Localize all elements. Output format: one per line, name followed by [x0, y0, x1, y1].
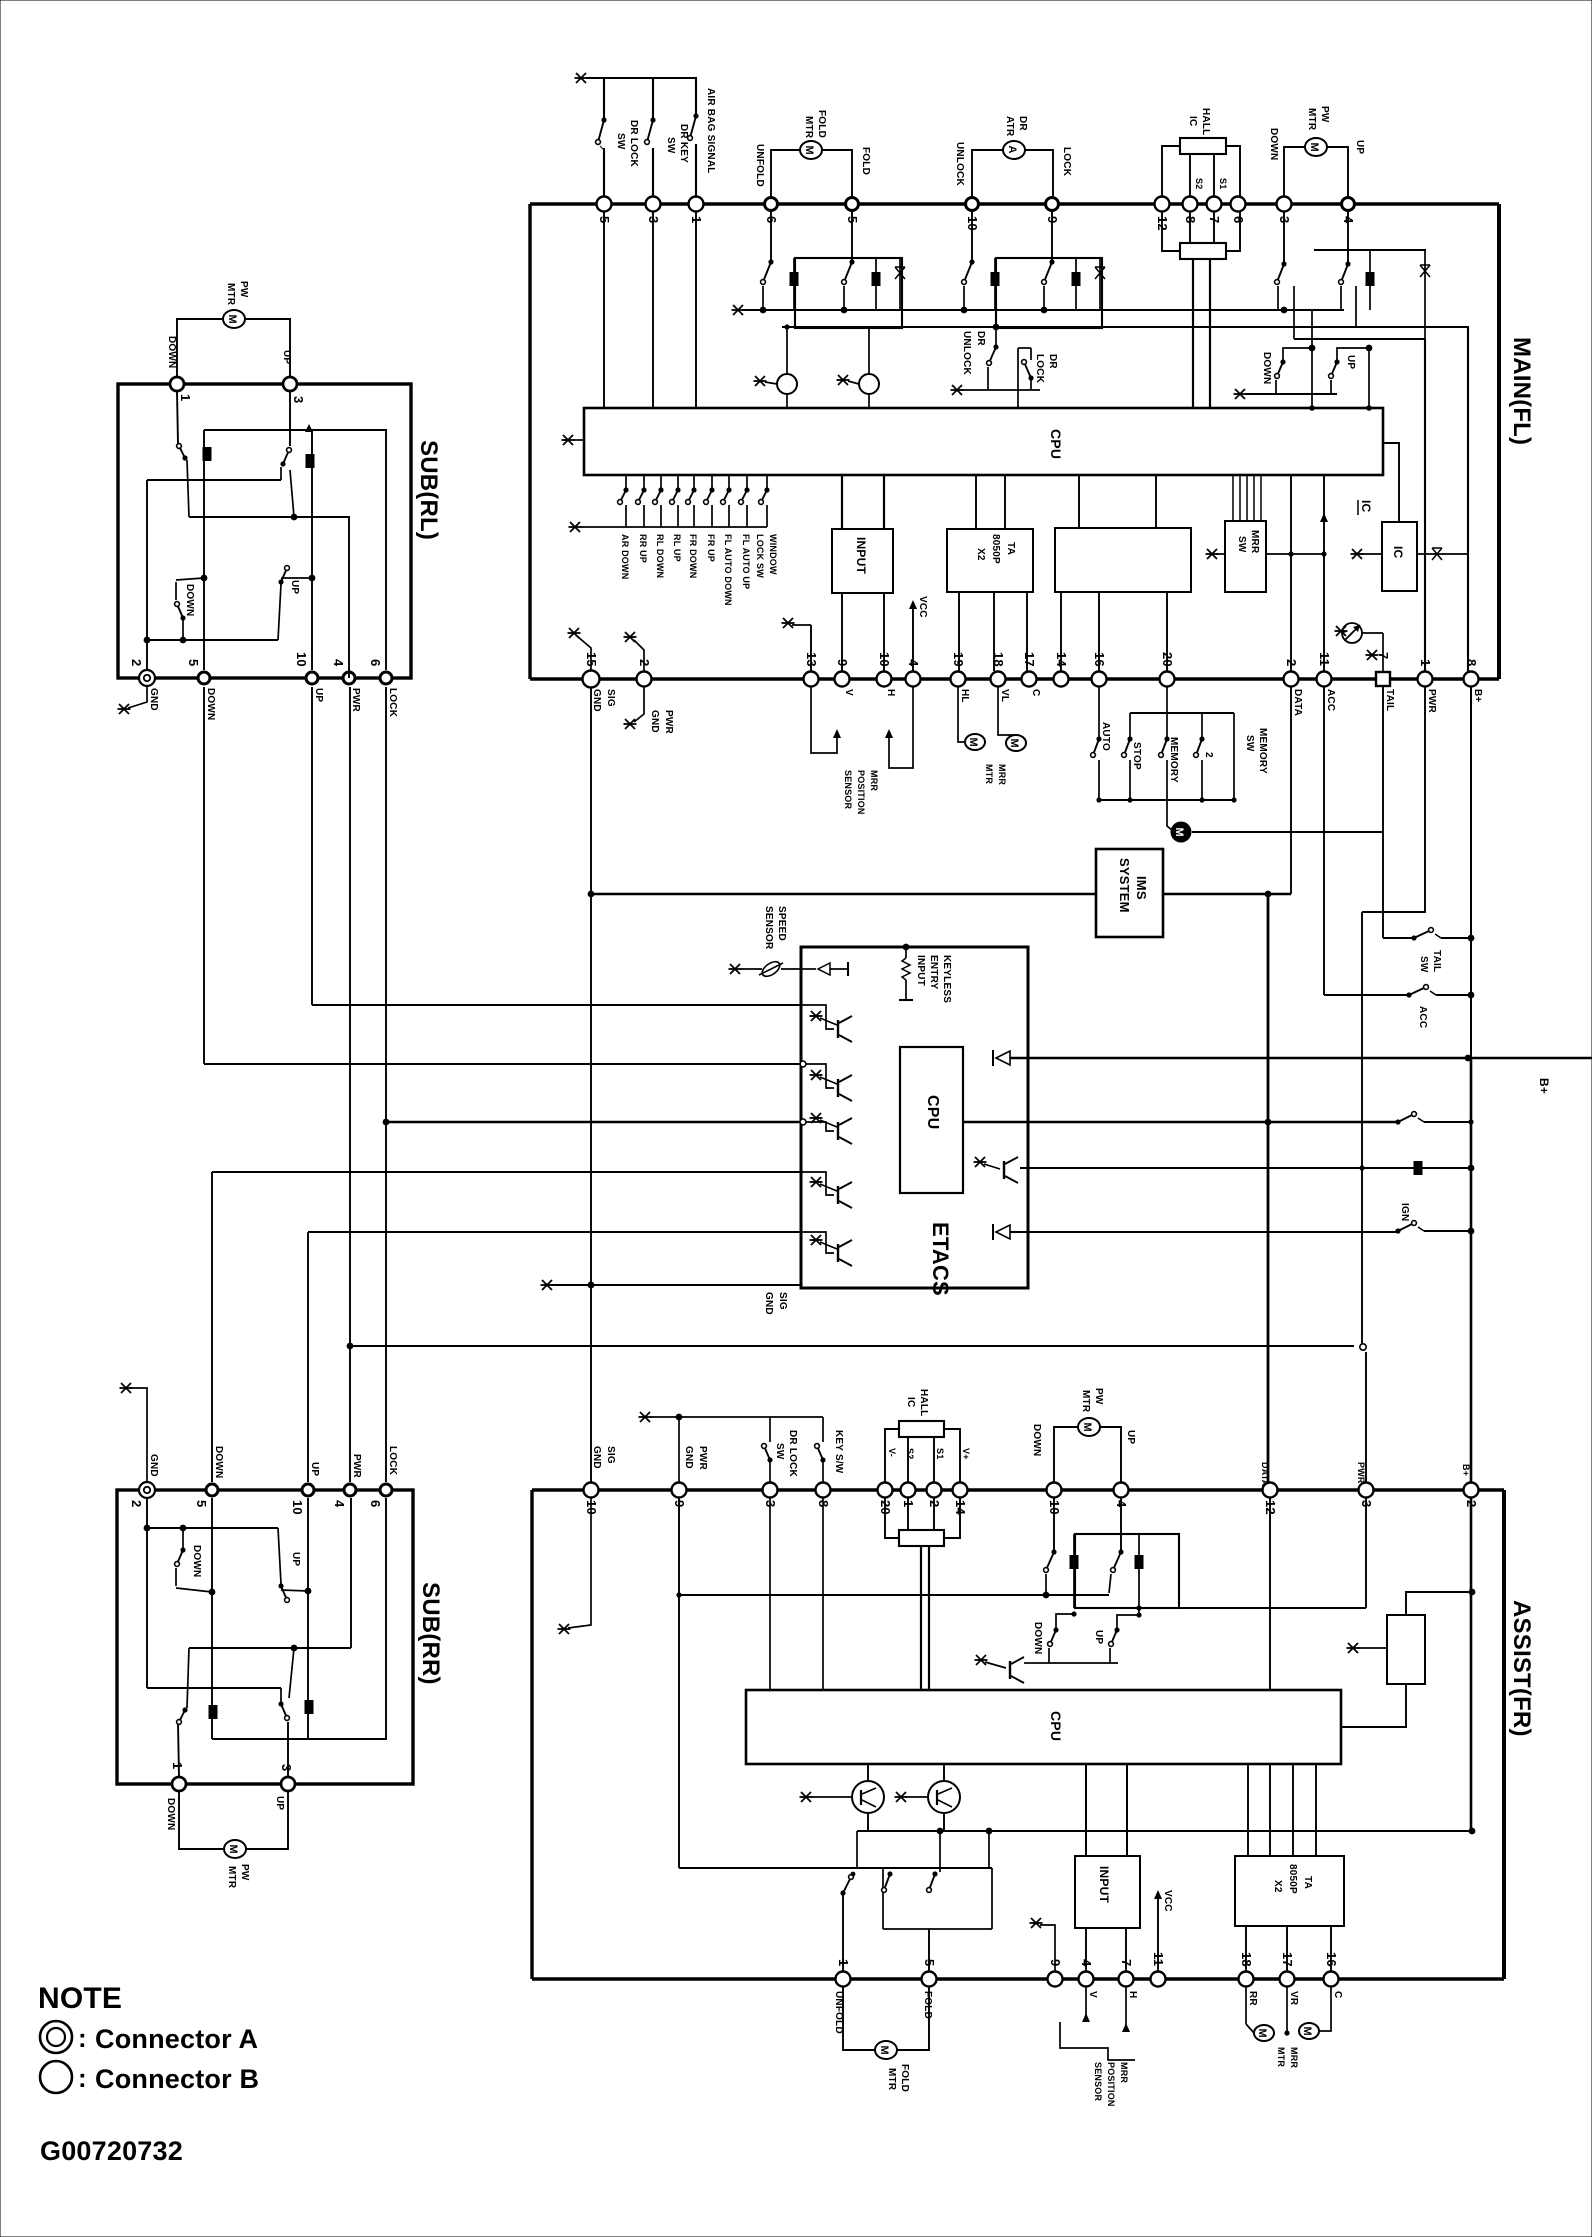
svg-text:MTR: MTR — [1080, 1390, 1091, 1413]
svg-text:DATA: DATA — [1292, 689, 1303, 716]
svg-text:SW: SW — [1236, 536, 1247, 553]
svg-text:GND: GND — [649, 710, 660, 733]
svg-text:M: M — [967, 738, 979, 747]
svg-text:14: 14 — [1054, 652, 1069, 667]
svg-text:13: 13 — [804, 652, 819, 667]
svg-text:UP: UP — [1354, 140, 1365, 154]
svg-text:6: 6 — [1231, 216, 1246, 223]
svg-text:8050P: 8050P — [1287, 1864, 1298, 1894]
svg-text:POSITION: POSITION — [856, 770, 866, 815]
svg-text:17: 17 — [1022, 652, 1037, 667]
svg-text:NOTE: NOTE — [38, 1982, 122, 2015]
svg-text:M: M — [1301, 2027, 1313, 2036]
svg-text:M: M — [1308, 143, 1320, 152]
svg-text:10: 10 — [294, 652, 309, 667]
svg-text:TAIL: TAIL — [1384, 689, 1395, 711]
svg-text:DR: DR — [1017, 116, 1028, 131]
svg-text:SENSOR: SENSOR — [1093, 2062, 1103, 2102]
svg-text:3: 3 — [291, 396, 306, 403]
svg-text:1: 1 — [836, 1959, 851, 1966]
svg-text:FL AUTO DOWN: FL AUTO DOWN — [723, 534, 733, 606]
svg-text:GND: GND — [683, 1446, 694, 1469]
svg-text:UP: UP — [1093, 1630, 1104, 1644]
svg-text:4: 4 — [906, 659, 921, 667]
svg-text:PW: PW — [239, 1864, 250, 1881]
svg-text:C: C — [1332, 1991, 1343, 1998]
svg-text:PWR: PWR — [350, 688, 361, 713]
svg-text:MTR: MTR — [984, 764, 994, 784]
svg-text:GND: GND — [148, 1454, 159, 1477]
svg-text:AIR BAG SIGNAL: AIR BAG SIGNAL — [705, 88, 716, 174]
svg-text:IMS: IMS — [1134, 876, 1149, 900]
svg-text:FOLD: FOLD — [860, 147, 871, 175]
svg-text:DOWN: DOWN — [166, 336, 177, 368]
svg-text:DR KEY: DR KEY — [678, 124, 689, 163]
svg-text:UP: UP — [281, 350, 292, 364]
svg-text:PWR: PWR — [1426, 689, 1437, 714]
svg-text:SUB(RR): SUB(RR) — [417, 1582, 444, 1685]
svg-text:PW: PW — [1093, 1388, 1104, 1405]
svg-text:SPEED: SPEED — [776, 906, 787, 941]
svg-text:2: 2 — [1203, 752, 1214, 758]
svg-text:3: 3 — [646, 216, 661, 223]
svg-text:AR DOWN: AR DOWN — [620, 534, 630, 579]
svg-text:DOWN: DOWN — [213, 1446, 224, 1478]
svg-text:H: H — [1127, 1991, 1138, 1998]
svg-text:UP: UP — [309, 1462, 320, 1476]
svg-text:6: 6 — [368, 659, 383, 666]
svg-text:SW: SW — [665, 137, 676, 154]
svg-text:MRR: MRR — [997, 764, 1007, 785]
svg-text:GND: GND — [763, 1292, 774, 1315]
svg-text:M: M — [226, 315, 238, 324]
svg-text:M: M — [227, 1845, 239, 1854]
svg-text:FOLD: FOLD — [816, 110, 827, 138]
svg-text:DATA: DATA — [1260, 1462, 1270, 1487]
svg-text:SIG: SIG — [777, 1292, 788, 1310]
svg-text:GND: GND — [591, 1446, 602, 1469]
svg-text:DR LOCK: DR LOCK — [787, 1430, 798, 1478]
svg-text:M: M — [1256, 2029, 1268, 2038]
svg-text:DR LOCK: DR LOCK — [628, 120, 639, 168]
svg-text:RL UP: RL UP — [672, 534, 682, 562]
svg-text:UNLOCK: UNLOCK — [961, 331, 972, 376]
svg-text:MTR: MTR — [225, 283, 236, 306]
svg-text:UP: UP — [289, 580, 300, 594]
svg-text:DOWN: DOWN — [184, 584, 195, 616]
svg-text:DR: DR — [1047, 354, 1058, 369]
svg-text:GND: GND — [591, 689, 602, 712]
svg-text:18: 18 — [991, 652, 1006, 667]
svg-text:2: 2 — [129, 659, 144, 666]
svg-text:5: 5 — [597, 216, 612, 223]
svg-text:MRR: MRR — [869, 770, 879, 791]
svg-text:ACC: ACC — [1417, 1006, 1428, 1028]
svg-text:UNFOLD: UNFOLD — [754, 144, 765, 187]
svg-text:HL: HL — [959, 689, 970, 703]
svg-text:UP: UP — [1125, 1430, 1136, 1444]
svg-text:FR UP: FR UP — [706, 534, 716, 562]
svg-text:B+: B+ — [1537, 1078, 1551, 1094]
svg-text:UP: UP — [274, 1796, 285, 1810]
svg-text:5: 5 — [922, 1959, 937, 1966]
svg-text:FOLD: FOLD — [899, 2064, 910, 2092]
svg-text:AUTO: AUTO — [1100, 722, 1111, 751]
svg-text:MTR: MTR — [803, 116, 814, 139]
svg-text:SYSTEM: SYSTEM — [1117, 858, 1132, 913]
svg-text:4: 4 — [331, 659, 346, 667]
svg-text:X2: X2 — [975, 548, 986, 561]
svg-text:IC: IC — [1187, 116, 1198, 126]
svg-text:CPU: CPU — [1048, 1711, 1064, 1741]
svg-text:LOCK SW: LOCK SW — [755, 534, 765, 578]
svg-text:10: 10 — [877, 652, 892, 667]
svg-text:DOWN: DOWN — [205, 688, 216, 720]
svg-text:FL AUTO UP: FL AUTO UP — [741, 534, 751, 589]
svg-text:C: C — [1030, 689, 1041, 696]
svg-text:6: 6 — [368, 1500, 383, 1507]
svg-text:RR UP: RR UP — [638, 534, 648, 563]
svg-text:ATR: ATR — [1004, 116, 1015, 137]
svg-text:MTR: MTR — [1276, 2047, 1286, 2067]
svg-text::: : — [78, 2063, 87, 2093]
svg-text:PWR: PWR — [351, 1454, 362, 1479]
svg-text:G00720732: G00720732 — [40, 2136, 183, 2166]
svg-text:S2: S2 — [905, 1448, 915, 1459]
svg-text:V: V — [1087, 1991, 1098, 1998]
svg-text:LOCK: LOCK — [1061, 147, 1072, 177]
svg-text:VR: VR — [1288, 1991, 1299, 2006]
svg-text:UP: UP — [290, 1552, 301, 1566]
svg-text:B+: B+ — [1472, 689, 1483, 702]
svg-text:V+: V+ — [961, 1448, 971, 1460]
svg-text:PW: PW — [238, 281, 249, 298]
svg-text:M: M — [1081, 1423, 1093, 1432]
svg-text:S1: S1 — [1218, 178, 1228, 189]
svg-text:DOWN: DOWN — [165, 1798, 176, 1830]
svg-text:DR: DR — [975, 331, 986, 346]
svg-text:ENTRY: ENTRY — [928, 955, 939, 990]
svg-text:INPUT: INPUT — [854, 537, 868, 574]
svg-text:DOWN: DOWN — [1268, 128, 1279, 160]
svg-text:2: 2 — [129, 1500, 144, 1507]
svg-text:LOCK: LOCK — [1034, 354, 1045, 384]
svg-text:SENSOR: SENSOR — [763, 906, 774, 950]
svg-text:UNLOCK: UNLOCK — [954, 142, 965, 187]
svg-text:16: 16 — [1092, 652, 1107, 667]
svg-text:MRR: MRR — [1289, 2047, 1299, 2068]
svg-text:SW: SW — [774, 1443, 785, 1460]
svg-text:POSITION: POSITION — [1106, 2062, 1116, 2107]
svg-text:SW: SW — [1244, 735, 1255, 752]
svg-text:LOCK: LOCK — [387, 1446, 398, 1476]
svg-text:IC: IC — [1391, 546, 1405, 559]
svg-text:1: 1 — [689, 216, 704, 223]
svg-text:WINDOW: WINDOW — [768, 534, 778, 575]
svg-text:TA: TA — [1302, 1876, 1313, 1889]
svg-text:ACC: ACC — [1325, 689, 1336, 711]
svg-text:SW: SW — [615, 133, 626, 150]
svg-text:CPU: CPU — [924, 1095, 941, 1129]
svg-text:A: A — [1006, 146, 1018, 154]
svg-text:PWR: PWR — [1356, 1462, 1366, 1484]
svg-text:X2: X2 — [1272, 1880, 1283, 1893]
svg-text:UP: UP — [313, 688, 324, 702]
svg-text:PW: PW — [1319, 106, 1330, 123]
svg-text:B+: B+ — [1461, 1464, 1471, 1476]
svg-text:1: 1 — [170, 1762, 185, 1769]
svg-text:IC: IC — [1359, 500, 1373, 513]
svg-text:SENSOR: SENSOR — [843, 770, 853, 810]
svg-text:2: 2 — [1284, 659, 1299, 666]
svg-text:SUB(RL): SUB(RL) — [415, 440, 442, 540]
svg-text:VCC: VCC — [917, 596, 928, 618]
svg-text:5: 5 — [194, 1500, 209, 1507]
svg-text:3: 3 — [279, 1764, 294, 1771]
svg-text:KEYLESS: KEYLESS — [941, 955, 952, 1003]
svg-text:S2: S2 — [1194, 178, 1204, 189]
svg-text:RR: RR — [1247, 1991, 1258, 2006]
svg-text:S1: S1 — [935, 1448, 945, 1459]
svg-text:DOWN: DOWN — [191, 1545, 202, 1577]
svg-text:PWR: PWR — [697, 1446, 708, 1471]
svg-text:M: M — [1008, 739, 1020, 748]
svg-text:STOP: STOP — [1131, 742, 1142, 770]
svg-text:M: M — [878, 2046, 890, 2055]
svg-text:SIG: SIG — [605, 689, 616, 707]
svg-text:MTR: MTR — [226, 1866, 237, 1889]
svg-text:M: M — [1173, 828, 1185, 837]
svg-text:MTR: MTR — [886, 2068, 897, 2091]
svg-text:10: 10 — [290, 1500, 305, 1515]
svg-text:FOLD: FOLD — [922, 1991, 933, 2019]
svg-text:MRR: MRR — [1119, 2062, 1129, 2083]
svg-text:IGN: IGN — [1399, 1203, 1410, 1221]
svg-text:DOWN: DOWN — [1261, 352, 1272, 384]
svg-text:SIG: SIG — [605, 1446, 616, 1464]
svg-text:11: 11 — [1317, 652, 1332, 666]
svg-text:H: H — [885, 689, 896, 696]
svg-text:20: 20 — [1160, 652, 1175, 667]
svg-text:LOCK: LOCK — [387, 688, 398, 718]
svg-text:GND: GND — [148, 688, 159, 711]
svg-text:VCC: VCC — [1162, 1890, 1173, 1912]
svg-text:TA: TA — [1005, 542, 1016, 555]
svg-text:Connector A: Connector A — [95, 2024, 258, 2054]
svg-text::: : — [78, 2023, 87, 2053]
svg-text:MEMORY: MEMORY — [1168, 737, 1179, 783]
svg-text:Connector B: Connector B — [95, 2064, 259, 2094]
svg-text:8: 8 — [1464, 659, 1479, 666]
svg-text:PWR: PWR — [663, 710, 674, 735]
svg-text:HALL: HALL — [918, 1389, 929, 1416]
svg-text:RL DOWN: RL DOWN — [655, 534, 665, 578]
svg-text:V-: V- — [887, 1448, 897, 1457]
svg-text:FR DOWN: FR DOWN — [688, 534, 698, 578]
svg-text:MTR: MTR — [1306, 108, 1317, 131]
svg-text:1: 1 — [178, 394, 193, 401]
svg-text:VL: VL — [999, 689, 1010, 702]
svg-text:ASSIST(FR): ASSIST(FR) — [1508, 1600, 1535, 1737]
svg-text:INPUT: INPUT — [1097, 1866, 1111, 1903]
svg-text:19: 19 — [951, 652, 966, 667]
svg-text:M: M — [803, 146, 815, 155]
svg-text:DOWN: DOWN — [1032, 1622, 1043, 1654]
svg-text:5: 5 — [186, 659, 201, 666]
svg-text:DOWN: DOWN — [1031, 1424, 1042, 1456]
svg-text:TAIL: TAIL — [1431, 950, 1442, 972]
svg-text:KEY S/W: KEY S/W — [833, 1430, 844, 1474]
svg-text:MEMORY: MEMORY — [1257, 728, 1268, 774]
svg-text:MRR: MRR — [1249, 530, 1260, 554]
svg-text:INPUT: INPUT — [915, 955, 926, 986]
svg-text:UP: UP — [1345, 355, 1356, 369]
svg-text:CPU: CPU — [1048, 429, 1064, 459]
svg-text:SW: SW — [1418, 956, 1429, 973]
svg-text:MAIN(FL): MAIN(FL) — [1508, 337, 1535, 445]
svg-text:ETACS: ETACS — [928, 1222, 953, 1296]
svg-text:1: 1 — [1418, 659, 1433, 666]
svg-text:IC: IC — [905, 1397, 916, 1407]
svg-text:8050P: 8050P — [990, 534, 1001, 564]
svg-text:9: 9 — [835, 659, 850, 666]
svg-text:V: V — [843, 689, 854, 696]
svg-text:HALL: HALL — [1200, 108, 1211, 135]
svg-text:4: 4 — [332, 1500, 347, 1508]
